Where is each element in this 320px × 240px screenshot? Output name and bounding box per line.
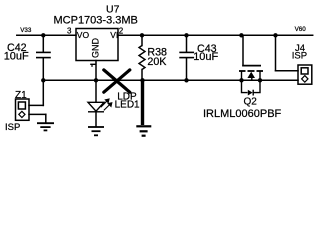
channel segments xyxy=(239,70,246,72)
substrate arrow xyxy=(247,72,255,78)
wire C42 bottom lead xyxy=(42,58,44,80)
node Q2 gate xyxy=(239,33,243,37)
svg-text:V33: V33 xyxy=(20,27,32,34)
wire R38 bottom lead xyxy=(141,70,143,81)
junction dots top rail xyxy=(41,33,278,82)
pin 1 label xyxy=(90,64,96,67)
wire R38 top lead xyxy=(141,35,143,45)
svg-text:ISP: ISP xyxy=(292,51,307,62)
thick ground stub right of LED labels xyxy=(141,80,144,125)
node U7 GND / LED xyxy=(94,78,98,82)
resistor R38 zigzag xyxy=(139,46,145,70)
body diode loop xyxy=(242,80,261,95)
LED LED1 symbol xyxy=(88,102,104,112)
svg-text:ISP: ISP xyxy=(5,122,20,133)
svg-text:2: 2 xyxy=(119,26,124,35)
node C43 bottom xyxy=(184,78,188,82)
svg-text:10uF: 10uF xyxy=(193,51,218,63)
svg-text:VI: VI xyxy=(110,30,118,40)
wire LED1 bottom lead to ground xyxy=(95,112,97,126)
ground symbol under thick stub xyxy=(136,126,151,135)
svg-text:VO: VO xyxy=(77,30,90,40)
wire bottom rail xyxy=(43,79,298,81)
capacitor C43 xyxy=(179,52,194,57)
node C43 top xyxy=(184,33,188,37)
wire Q2 gate lead from top rail xyxy=(242,35,244,65)
ground below LED1 xyxy=(88,127,104,135)
node J4 pin1 xyxy=(273,33,277,37)
wire J4 pin1 branch vertical xyxy=(275,35,277,70)
connector Z1 xyxy=(16,99,30,120)
svg-text:3: 3 xyxy=(67,26,72,35)
body diode arrow xyxy=(248,90,253,96)
wire Z1 pin1 horizontal xyxy=(29,104,43,106)
wire C42 top lead xyxy=(42,35,44,51)
wire LED1 top lead xyxy=(95,80,97,102)
bulk stem xyxy=(251,78,253,81)
LED arrows xyxy=(101,99,112,110)
node C42 bottom xyxy=(41,78,45,82)
wire Z1 pin2 to ground horizontal xyxy=(29,113,46,115)
svg-text:10uF: 10uF xyxy=(4,51,29,63)
svg-text:IRLML0060PBF: IRLML0060PBF xyxy=(203,108,282,120)
capacitor C42 xyxy=(36,52,51,57)
wire C43 bottom lead xyxy=(186,58,188,80)
svg-text:Q2: Q2 xyxy=(244,97,258,108)
svg-text:Z1: Z1 xyxy=(15,90,27,101)
gate plate xyxy=(242,65,261,67)
node R38 top xyxy=(140,33,144,37)
svg-text:20K: 20K xyxy=(147,56,167,68)
wire C43 top lead xyxy=(186,35,188,51)
wire top rail right (U7 VI pin to V60) xyxy=(118,34,313,36)
svg-text:GND: GND xyxy=(91,38,101,59)
node Q2 source xyxy=(239,78,243,82)
wire Z1 pin1 vertical to bottom rail xyxy=(42,80,44,105)
drain lead xyxy=(259,71,261,80)
wire J4 pin1 horizontal xyxy=(276,70,299,72)
op-amp U7 regulator MCP1703 box xyxy=(76,29,118,61)
node R38 bottom / ground xyxy=(140,78,144,82)
transistor Q2 gate and channel xyxy=(239,66,263,71)
X cross over wire xyxy=(104,70,130,92)
wire top rail left (V33 to U7 VO pin) xyxy=(17,34,76,36)
node Q2 drain xyxy=(258,78,262,82)
svg-text:MCP1703-3.3MB: MCP1703-3.3MB xyxy=(54,14,138,26)
wire U7 GND pin lead xyxy=(95,61,97,81)
node C42/V33 xyxy=(41,33,45,37)
source lead xyxy=(241,71,243,80)
svg-text:LED1: LED1 xyxy=(115,99,140,110)
svg-text:V60: V60 xyxy=(295,26,307,33)
wire Z1 ground stem xyxy=(45,114,47,122)
connector J4 xyxy=(298,65,312,84)
ground near Z1 xyxy=(37,123,54,130)
